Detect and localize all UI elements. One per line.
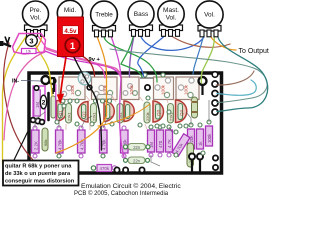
svg-text:1: 1 [70, 41, 76, 52]
ghost pot footprint row [59, 77, 199, 100]
svg-text:470: 470 [158, 140, 163, 148]
capacitor ceramic teal [78, 72, 91, 85]
pot footprint P4 100k [154, 77, 174, 100]
pad right rail 0 [212, 72, 218, 78]
resistor 4.70k [78, 130, 86, 153]
small resistors mid row (green pills) [66, 102, 174, 123]
wire orange vol to output [211, 36, 237, 50]
wire black from test box to board [74, 57, 102, 150]
svg-text:Treble: Treble [95, 12, 113, 19]
thin traces [35, 100, 209, 166]
svg-text:conseguir mas distorsion: conseguir mas distorsion [5, 179, 75, 185]
pad right rail 4 [212, 109, 218, 115]
annotation red box 4.5v test point [58, 17, 84, 57]
svg-text:Q3: Q3 [156, 109, 161, 116]
main resistor row [32, 126, 213, 156]
transistors Q1-Q6 [57, 100, 187, 123]
resistor 1M [34, 90, 41, 116]
transistor Q6 [124, 101, 134, 122]
svg-text:2: 2 [42, 100, 46, 107]
wire stub [52, 88, 54, 94]
horizontal resistor 470k [91, 144, 150, 173]
resistor 10k input [22, 49, 37, 54]
wire pink extra strand [46, 49, 121, 77]
red annotation line with arrow [57, 57, 66, 104]
resistor 220k [192, 97, 198, 118]
svg-text:9v +: 9v + [89, 57, 101, 63]
note box [3, 161, 79, 186]
wire cyan loop [217, 80, 256, 95]
wire green bass leg [121, 36, 142, 77]
pad left 1 [31, 118, 36, 123]
transistor Q4 [176, 100, 187, 123]
svg-text:10k: 10k [26, 50, 32, 54]
pot footprint P3 100k [122, 77, 140, 100]
svg-text:22k1: 22k1 [67, 112, 72, 121]
input jack symbol [0, 41, 4, 46]
wire teal loop B [217, 36, 268, 112]
svg-text:Vol.: Vol. [166, 15, 177, 22]
svg-text:22n: 22n [133, 158, 141, 163]
wire pad link [140, 77, 153, 79]
wire dark-red jack ground [4, 43, 33, 160]
resistor 22k1 [91, 104, 97, 124]
pot footprint P5 100k [176, 77, 199, 100]
pad bottom rail 1 [114, 167, 119, 172]
svg-text:1M: 1M [35, 102, 40, 108]
resistor R 68k (to replace per note) [42, 128, 48, 151]
svg-text:IN-: IN- [12, 79, 19, 85]
pot footprint P2 100k [92, 77, 118, 100]
resistor 4.70k [100, 130, 108, 153]
resistor 220k [144, 102, 150, 123]
wire yellow pot1 to input [3, 35, 28, 164]
wire yellow pot1 to board [31, 36, 52, 96]
highlight polygon input network [13, 34, 46, 55]
resistor film left [51, 96, 56, 118]
transistor Q5 [104, 101, 114, 122]
svg-text:100k: 100k [129, 84, 134, 95]
wire brown mast to output [172, 36, 231, 47]
red measurement box [58, 17, 84, 57]
svg-text:Mid.: Mid. [64, 7, 76, 14]
wire orange treble to board [56, 36, 107, 153]
teal capacitor on top edge [78, 72, 91, 85]
node 2 marker [40, 95, 46, 109]
wire green treble wiper [104, 36, 157, 82]
magenta annotation box with resistor 1M and marker 2 [33, 84, 56, 124]
wire teal loop A [110, 49, 267, 103]
wire purple bass to board [129, 36, 134, 77]
faint copper traces [60, 95, 192, 130]
pot footprint P1 100k [59, 77, 85, 100]
capacitor C1 22n [128, 144, 146, 151]
pad bottom right 2 [197, 154, 203, 160]
note box: quitar R 68k [3, 161, 79, 186]
potentiometers [23, 0, 224, 37]
svg-text:Pre.: Pre. [30, 7, 42, 14]
svg-text:100k: 100k [184, 84, 189, 95]
svg-text:4.7K: 4.7K [167, 139, 172, 148]
resistor 4.7K [166, 130, 173, 152]
pad bottom right 1 [189, 154, 195, 160]
resistor 100k film [187, 143, 194, 167]
resistor 2.20k [188, 129, 195, 149]
svg-text:Vol.: Vol. [204, 12, 215, 19]
svg-text:470k: 470k [100, 166, 110, 171]
pad 1M top [34, 86, 39, 91]
resistor 4.70k [56, 130, 64, 153]
annotation arrow to test point 1 [61, 57, 67, 95]
resistor 1k [197, 129, 204, 149]
svg-text:Q4: Q4 [179, 109, 184, 116]
wire black note pointer [14, 128, 30, 160]
wire blue vol leg to board [193, 36, 204, 74]
wire magenta treble to board [111, 36, 124, 157]
node 3 marker [26, 35, 38, 47]
pad corner 1 [213, 155, 218, 160]
wire IN leader line [21, 80, 41, 83]
resistor 22k1 [117, 104, 123, 124]
resistor 470k [97, 165, 112, 172]
svg-text:4.5v: 4.5v [64, 28, 77, 35]
svg-text:Vol.: Vol. [30, 15, 41, 22]
pad bottom rail 2 [123, 167, 128, 172]
svg-text:100k: 100k [70, 84, 75, 95]
pad 470k right [112, 166, 116, 170]
transistor Q1 [57, 101, 67, 122]
svg-text:Mast.: Mast. [163, 7, 179, 14]
potentiometer VR5 Mast. Vol. [158, 1, 184, 37]
svg-text:de 33k o un puente para: de 33k o un puente para [5, 171, 71, 177]
svg-text:quitar R 68k y poner una: quitar R 68k y poner una [5, 164, 72, 170]
resistor 470 [157, 130, 164, 152]
green ring pads scattered [33, 73, 211, 158]
svg-text:Emulation Circuit © 2004, Elec: Emulation Circuit © 2004, Electric [81, 182, 181, 190]
green film resistors [42, 97, 198, 167]
wire orange inside board [98, 104, 150, 126]
svg-text:2.2K: 2.2K [34, 141, 39, 150]
pad near IN [50, 78, 56, 84]
svg-text:100k: 100k [161, 84, 166, 95]
pad 1M bottom [35, 118, 40, 123]
pad below cap [87, 85, 92, 90]
PCB board outline [29, 73, 222, 173]
wire pink polygon to lower left [4, 52, 45, 140]
pad J3 [145, 85, 150, 90]
resistor 100k [206, 126, 213, 146]
pad IN [42, 76, 50, 84]
pad left 2 [40, 120, 45, 125]
capacitor C2 22n [128, 157, 145, 164]
potentiometer VR1 Pre. Vol. [23, 1, 49, 36]
svg-text:22k1: 22k1 [92, 112, 97, 121]
resistor 22k1 [168, 104, 174, 124]
wire blue mast to board [138, 36, 165, 76]
pad bottom rail 3 [139, 167, 144, 172]
wire magenta node3 to board [45, 51, 121, 78]
pad corner 2 [213, 165, 218, 170]
resistor 4.70k diagonal [172, 134, 190, 157]
wire pink pot1 leg [38, 36, 46, 48]
wire pink node3 to board [47, 48, 105, 78]
wire brown stub to pad [216, 71, 254, 85]
resistor 1M [148, 130, 155, 152]
svg-text:4.70k: 4.70k [58, 139, 63, 150]
jumper link [97, 95, 112, 100]
resistor 22k1 [66, 104, 72, 124]
resistor 2.20k [121, 130, 129, 153]
svg-text:100k: 100k [207, 133, 212, 143]
wire lime vol to board [201, 36, 214, 83]
pads [31, 72, 218, 170]
svg-text:To Output: To Output [239, 48, 269, 55]
svg-text:3: 3 [29, 36, 33, 45]
svg-text:220k: 220k [145, 112, 150, 121]
svg-text:Bass: Bass [134, 11, 149, 18]
transistor Q3 [153, 101, 164, 122]
potentiometer VR3 Treble [91, 1, 118, 37]
transistor Q2 [78, 102, 88, 123]
potentiometer VR4 Bass [128, 1, 154, 36]
input jack symbol [0, 37, 11, 47]
potentiometer VR6 Vol. [196, 1, 223, 37]
resistor 2.2K [32, 130, 40, 153]
svg-text:22n: 22n [133, 145, 141, 150]
svg-text:4.70k: 4.70k [102, 139, 107, 150]
wire blue bass to vol [141, 36, 205, 50]
potentiometer VR2 Mid. [57, 0, 82, 30]
highlight box around R 1M [33, 86, 45, 121]
pad 470k left [91, 166, 95, 170]
magenta polygon around marker 3 [13, 34, 46, 55]
svg-text:Q2: Q2 [82, 111, 87, 117]
wire magenta vertical [55, 84, 57, 124]
wire orange pot1 leg [34, 36, 42, 50]
svg-text:68k: 68k [43, 140, 48, 146]
pad output node [199, 77, 207, 85]
wire dark-red from test box [82, 56, 95, 76]
svg-text:PCB © 2005, Cabochon Intermedi: PCB © 2005, Cabochon Intermedia [74, 190, 169, 197]
pad right rail 1 [212, 81, 218, 87]
pad right rail 3 [212, 100, 218, 106]
wire thick trace [47, 93, 50, 120]
pad right rail 2 [212, 91, 218, 97]
